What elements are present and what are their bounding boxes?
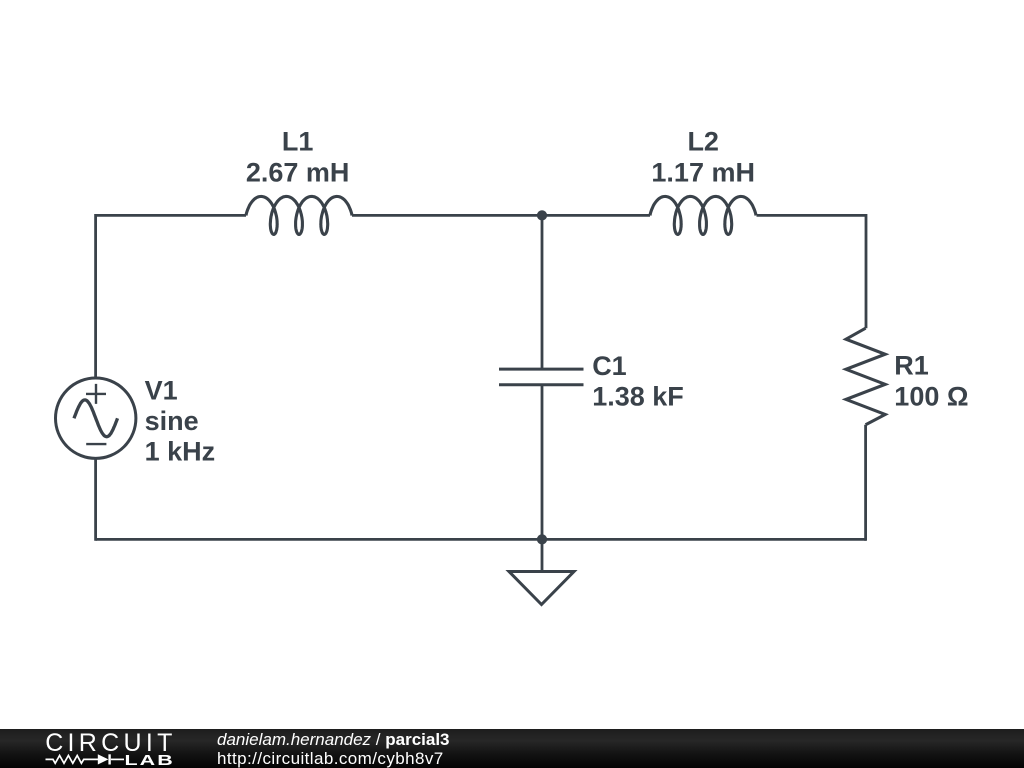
node junction dot top	[537, 210, 547, 220]
wire right vertical upper	[865, 214, 868, 328]
inductor L2	[650, 196, 756, 234]
svg-text:1.38 kF: 1.38 kF	[592, 382, 684, 412]
capacitor C1 bottom plate	[499, 383, 584, 386]
wire middle vertical lower	[541, 385, 544, 540]
svg-text:L2: L2	[687, 127, 719, 157]
capacitor C1 top plate	[499, 368, 584, 371]
svg-text:1 kHz: 1 kHz	[145, 437, 216, 467]
svg-text:100 Ω: 100 Ω	[894, 381, 968, 411]
node junction dot bottom	[537, 534, 547, 544]
wire right vertical lower	[864, 425, 867, 541]
resistor R1 zigzag	[846, 328, 885, 425]
logo diode triangle	[98, 754, 109, 764]
voltage source V1 circle	[55, 378, 135, 458]
ground symbol triangle	[509, 572, 574, 605]
wire top-left horizontal	[96, 214, 246, 217]
svg-text:LAB: LAB	[125, 751, 175, 768]
svg-text:R1: R1	[894, 350, 929, 380]
svg-text:L1: L1	[282, 127, 314, 157]
wire bottom horizontal	[96, 538, 866, 541]
inductor L1	[246, 196, 352, 234]
wire top-right horizontal	[757, 214, 867, 217]
svg-text:sine: sine	[145, 406, 199, 436]
wire left vertical upper	[94, 214, 97, 378]
V1 minus sign	[86, 443, 106, 445]
logo resistor zigzag	[46, 754, 125, 764]
wire top-middle	[352, 214, 650, 217]
svg-text:V1: V1	[145, 375, 178, 405]
V1 sine wave	[74, 400, 118, 437]
svg-text:2.67 mH: 2.67 mH	[246, 157, 350, 187]
wire middle vertical upper	[541, 215, 544, 369]
footer author line	[217, 731, 450, 768]
footer bar	[0, 729, 1024, 768]
wire left vertical lower	[94, 458, 97, 541]
svg-text:1.17 mH: 1.17 mH	[651, 157, 755, 187]
ground stub wire	[541, 539, 544, 571]
V1 plus sign	[86, 384, 106, 404]
svg-text:C1: C1	[592, 351, 627, 381]
